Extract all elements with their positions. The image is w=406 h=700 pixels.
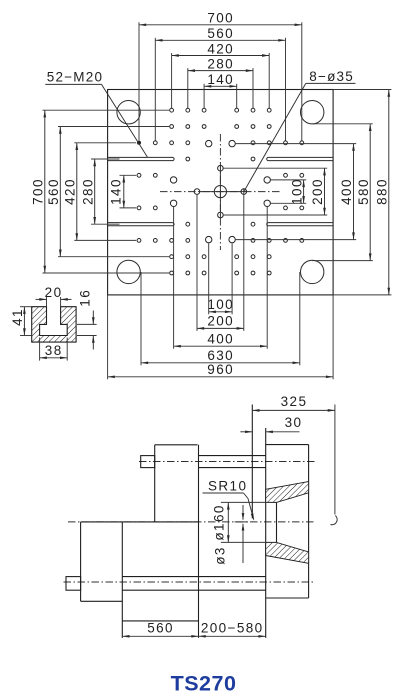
svg-text:100: 100: [289, 178, 304, 205]
svg-text:ø3: ø3: [212, 546, 227, 565]
svg-text:200: 200: [310, 178, 325, 205]
svg-text:SR10: SR10: [208, 478, 247, 493]
svg-text:400: 400: [207, 331, 234, 346]
svg-text:20: 20: [45, 285, 63, 300]
svg-text:140: 140: [207, 72, 234, 87]
svg-text:30: 30: [285, 415, 303, 430]
svg-text:140: 140: [108, 178, 123, 205]
svg-text:420: 420: [207, 41, 234, 56]
svg-text:560: 560: [147, 620, 174, 635]
svg-text:280: 280: [207, 56, 234, 71]
svg-text:280: 280: [80, 178, 95, 205]
svg-text:560: 560: [207, 26, 234, 41]
svg-text:41: 41: [10, 308, 25, 326]
svg-text:16: 16: [77, 289, 92, 307]
svg-text:700: 700: [207, 11, 234, 26]
svg-text:630: 630: [207, 348, 234, 363]
svg-text:ø160: ø160: [212, 504, 227, 540]
svg-text:580: 580: [356, 178, 371, 205]
svg-text:52−M20: 52−M20: [47, 70, 103, 85]
svg-text:960: 960: [207, 362, 234, 377]
svg-text:400: 400: [339, 178, 354, 205]
svg-text:325: 325: [281, 394, 308, 409]
svg-text:200: 200: [207, 314, 234, 329]
svg-text:700: 700: [31, 178, 46, 205]
svg-text:38: 38: [45, 343, 63, 358]
svg-text:8−ø35: 8−ø35: [309, 69, 354, 84]
svg-text:560: 560: [46, 178, 61, 205]
svg-text:100: 100: [207, 297, 234, 312]
svg-text:880: 880: [375, 178, 390, 205]
svg-text:200−580: 200−580: [201, 620, 264, 635]
svg-text:420: 420: [63, 178, 78, 205]
svg-text:TS270: TS270: [171, 672, 237, 696]
